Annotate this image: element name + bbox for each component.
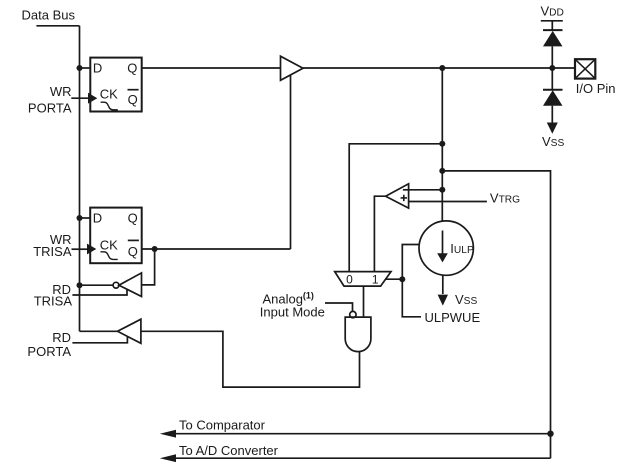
svg-text:WR: WR [50,84,72,99]
diode D1 to VDD [543,29,563,31]
wire analog input mode to AND bubble [325,303,353,312]
arrowhead WR PORTA clock [88,93,97,104]
svg-text:TRISA: TRISA [34,294,73,309]
flip-flop U1 clock edge symbol [101,102,118,110]
svg-text:(1): (1) [303,291,314,301]
flip-flop U3 Q-bar overline [128,239,139,241]
svg-text:TRISA: TRISA [33,244,72,259]
wire RD TRISA enable [72,290,127,295]
node Data Bus label [22,8,76,23]
wire U4 output to data bus [80,284,114,286]
wire To A/D Converter [165,457,551,459]
wire mux output to AND input [363,286,365,317]
label WR TRISA [33,232,72,259]
power VDD label [541,3,564,18]
power VSS label top right [542,134,564,149]
wire right side long branch [442,171,550,458]
svg-text:I/O Pin: I/O Pin [576,81,616,96]
node junction dot comparator branch [439,187,445,193]
wire RD PORTA enable [72,337,127,343]
label VTRG [490,190,520,205]
bubble on AND gate input [350,311,356,317]
current source I_ULP circle [419,221,473,275]
wire data bus horizontal [36,25,79,27]
wire Q-bar output TRIS [142,248,291,250]
wire WR TRISA to CK [72,248,88,250]
AND gate U8 [345,317,371,352]
power VDD rail bar [541,20,563,22]
svg-text:Q: Q [128,244,138,259]
wire mux input 0 [349,144,442,272]
svg-text:Q: Q [128,210,138,225]
comparator minus symbol [403,189,409,191]
svg-text:To Comparator: To Comparator [179,418,266,433]
node junction dot D2 [77,215,83,221]
svg-text:CK: CK [100,237,118,252]
comparator U6 [386,184,409,208]
wire D input flip-flop 1 [80,67,91,69]
svg-text:Q: Q [127,61,137,76]
wire TRIS enable to buffer [290,75,292,249]
wire diode D2 to VSS arrow [551,106,553,124]
arrowhead to VSS top right [547,123,558,134]
node junction dot right branch [439,168,445,174]
wire diode D1 to pin node [551,46,553,68]
svg-text:0: 0 [346,272,353,286]
arrowhead WR TRISA clock [87,244,96,255]
node junction dot RD TRISA bus [77,282,83,288]
svg-text:ULPWUE: ULPWUE [425,310,481,325]
bubble on U4 output [113,282,119,288]
label WR PORTA [28,84,72,115]
arrowhead to VSS middle [438,295,448,306]
wire Q-bar down to RD TRISA buffer [142,249,155,285]
flip-flop U1 pin labels [93,60,138,107]
flip-flop U1 Q-bar overline [128,89,139,91]
svg-text:PORTA: PORTA [28,100,72,115]
node junction dot ULPWUE [399,276,405,282]
svg-text:Input Mode: Input Mode [260,304,325,319]
wire comparator plus input VTRG [409,201,487,203]
label IULP [450,241,474,256]
buffer U2 output driver [281,56,304,80]
wire U5 input from AND gate [141,331,360,387]
wire VDD to diode D1 [551,21,553,30]
arrowhead To Comparator [160,430,176,438]
wire comparator minus input [409,189,443,191]
wire buffer output to I/O pin [303,67,575,69]
wire ULPWUE net [402,245,421,317]
wire Q1 output to buffer [142,67,281,69]
node junction dot Q-bar [152,246,158,252]
wire main vertical from pin node [441,68,443,221]
arrowhead To A/D Converter [160,454,176,462]
tri-state buffer U4 RD TRISA [119,273,142,297]
flip-flop U3 WR TRISA box [90,208,142,264]
svg-text:PORTA: PORTA [27,344,71,359]
wire mux select ULPWUE [385,278,402,280]
wire WR PORTA to CK [71,97,88,99]
flip-flop U1 WR PORTA box [90,58,141,112]
svg-text:RD: RD [52,330,71,345]
label Analog Input Mode [260,291,325,320]
svg-text:D: D [93,210,102,225]
node junction dot pin column [549,65,555,71]
diode D2 to VSS [543,89,563,91]
label To A/D Converter [179,443,279,458]
label RD TRISA [34,282,73,309]
label I/O Pin [576,81,616,96]
wire current source to VSS arrow [442,275,444,294]
node junction dot D1 [77,65,83,71]
I/O pin pad symbol [575,59,595,78]
node junction dot right branch bottom [547,431,553,437]
mux labels 0 1 [346,272,379,286]
wire U5 output to data bus corner [80,330,118,332]
wire To Comparator [165,433,551,435]
flip-flop U3 pin labels [93,210,138,258]
wire D input flip-flop U3 [80,217,91,219]
power VSS label middle [455,292,477,307]
flip-flop U3 clock edge symbol [101,252,118,260]
svg-text:CK: CK [100,87,118,102]
comparator plus symbol [401,195,407,201]
node junction dot main vertical [439,65,445,71]
label ULPWUE [425,310,481,325]
current source arrow [442,231,444,255]
wire data bus vertical [79,26,81,332]
buffer U5 RD PORTA [118,319,141,343]
mux U7 [335,272,391,287]
svg-text:Data Bus: Data Bus [22,8,76,23]
node junction dot mux0 branch [439,141,445,147]
label To Comparator [179,418,266,433]
svg-text:1: 1 [372,272,379,286]
wire comparator output to mux 1 [374,196,385,271]
svg-text:To A/D Converter: To A/D Converter [179,443,279,458]
svg-text:D: D [93,60,102,75]
svg-text:Q: Q [128,92,138,107]
wire pin node to diode D2 [551,68,553,90]
label RD PORTA [27,330,71,359]
